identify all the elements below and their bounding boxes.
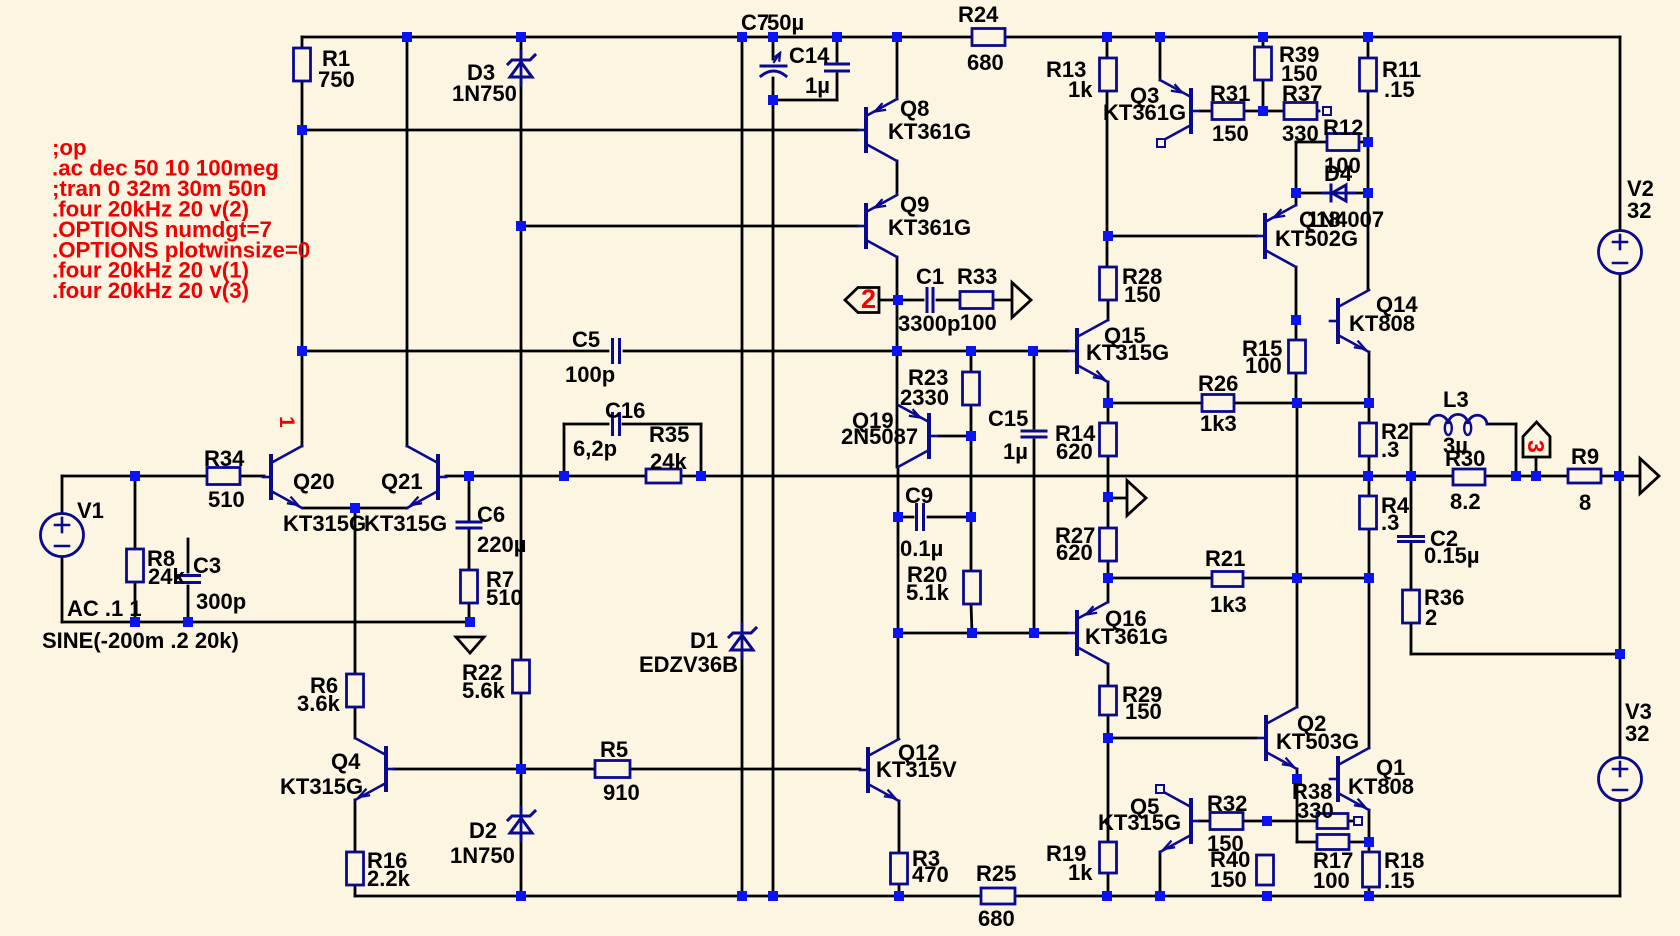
svg-text:C7: C7: [741, 10, 769, 35]
svg-text:KT361G: KT361G: [888, 215, 971, 240]
svg-text:330: 330: [1297, 798, 1334, 823]
svg-text:2N5087: 2N5087: [841, 424, 918, 449]
svg-text:R25: R25: [976, 861, 1016, 886]
svg-text:R5: R5: [600, 737, 628, 762]
svg-text:1µ: 1µ: [805, 73, 830, 98]
svg-text:1N750: 1N750: [450, 843, 515, 868]
svg-text:3: 3: [1523, 440, 1549, 453]
svg-text:0.15µ: 0.15µ: [1424, 543, 1480, 568]
svg-text:8: 8: [1579, 490, 1591, 515]
svg-text:5.1k: 5.1k: [906, 580, 950, 605]
svg-text:.four 20kHz 20 v(3): .four 20kHz 20 v(3): [52, 278, 249, 303]
svg-text:150: 150: [1124, 282, 1161, 307]
svg-text:910: 910: [603, 780, 640, 805]
svg-text:D4: D4: [1324, 161, 1353, 186]
svg-text:KT361G: KT361G: [888, 119, 971, 144]
svg-text:R21: R21: [1205, 546, 1245, 571]
svg-text:3300p: 3300p: [898, 311, 960, 336]
svg-text:KT502G: KT502G: [1275, 226, 1358, 251]
svg-text:100: 100: [1313, 868, 1350, 893]
svg-text:300p: 300p: [196, 589, 246, 614]
svg-text:C5: C5: [572, 327, 600, 352]
svg-text:KT808: KT808: [1348, 774, 1414, 799]
svg-text:KT315G: KT315G: [1098, 810, 1181, 835]
svg-text:1: 1: [275, 416, 298, 428]
svg-text:24k: 24k: [650, 449, 687, 474]
svg-text:V1: V1: [77, 498, 104, 523]
svg-text:R30: R30: [1445, 446, 1485, 471]
svg-text:KT808: KT808: [1349, 311, 1415, 336]
svg-text:C16: C16: [605, 398, 645, 423]
svg-text:Q20: Q20: [293, 469, 335, 494]
svg-text:KT361G: KT361G: [1085, 624, 1168, 649]
svg-text:Q9: Q9: [900, 192, 929, 217]
svg-text:R9: R9: [1571, 444, 1599, 469]
svg-text:1k: 1k: [1068, 860, 1093, 885]
svg-text:SINE(-200m .2 20k): SINE(-200m .2 20k): [42, 628, 239, 653]
svg-text:C15: C15: [988, 406, 1028, 431]
svg-text:C9: C9: [905, 483, 933, 508]
svg-text:150: 150: [1210, 867, 1247, 892]
svg-text:620: 620: [1056, 540, 1093, 565]
svg-text:KT361G: KT361G: [1103, 100, 1186, 125]
svg-text:5.6k: 5.6k: [462, 678, 506, 703]
svg-text:C6: C6: [477, 502, 505, 527]
svg-text:D2: D2: [469, 818, 497, 843]
svg-text:R35: R35: [649, 422, 689, 447]
svg-text:750: 750: [318, 67, 355, 92]
svg-text:R12: R12: [1323, 115, 1363, 140]
svg-text:3.6k: 3.6k: [297, 691, 341, 716]
svg-text:1N750: 1N750: [452, 81, 517, 106]
svg-text:L3: L3: [1443, 387, 1469, 412]
svg-text:C3: C3: [193, 553, 221, 578]
svg-text:.3: .3: [1381, 510, 1399, 535]
svg-text:330: 330: [1282, 121, 1319, 146]
svg-text:1µ: 1µ: [1003, 439, 1028, 464]
svg-text:C14: C14: [789, 43, 830, 68]
svg-text:KT315G: KT315G: [280, 774, 363, 799]
svg-text:R34: R34: [204, 446, 245, 471]
svg-text:680: 680: [967, 50, 1004, 75]
svg-text:1k: 1k: [1068, 77, 1093, 102]
svg-text:R31: R31: [1210, 81, 1250, 106]
svg-text:50µ: 50µ: [767, 10, 804, 35]
svg-text:R26: R26: [1198, 371, 1238, 396]
svg-text:Q8: Q8: [900, 96, 929, 121]
svg-text:1k3: 1k3: [1200, 411, 1237, 436]
svg-text:8.2: 8.2: [1450, 489, 1481, 514]
svg-text:.15: .15: [1384, 77, 1415, 102]
svg-text:2.2k: 2.2k: [367, 866, 411, 891]
svg-text:220µ: 220µ: [477, 532, 526, 557]
svg-text:32: 32: [1625, 721, 1649, 746]
svg-text:AC .1 1: AC .1 1: [67, 596, 142, 621]
svg-text:Q4: Q4: [331, 749, 361, 774]
svg-text:100: 100: [1245, 353, 1282, 378]
svg-text:2: 2: [861, 284, 876, 314]
svg-text:680: 680: [978, 906, 1015, 931]
svg-text:R24: R24: [958, 2, 999, 27]
svg-text:Q21: Q21: [381, 469, 423, 494]
svg-text:R33: R33: [957, 264, 997, 289]
svg-text:470: 470: [912, 862, 949, 887]
svg-text:620: 620: [1056, 439, 1093, 464]
svg-text:150: 150: [1125, 699, 1162, 724]
svg-text:.15: .15: [1384, 868, 1415, 893]
svg-text:150: 150: [1212, 121, 1249, 146]
svg-text:510: 510: [208, 487, 245, 512]
svg-text:100p: 100p: [565, 362, 615, 387]
svg-text:0.1µ: 0.1µ: [900, 536, 943, 561]
svg-text:24k: 24k: [148, 564, 185, 589]
svg-text:6,2p: 6,2p: [573, 436, 617, 461]
svg-text:R37: R37: [1282, 81, 1322, 106]
svg-text:KT315G: KT315G: [283, 511, 366, 536]
svg-text:2330: 2330: [900, 385, 949, 410]
svg-text:510: 510: [486, 585, 523, 610]
svg-text:32: 32: [1627, 198, 1651, 223]
svg-text:100: 100: [960, 310, 997, 335]
svg-text:2: 2: [1425, 605, 1437, 630]
svg-text:1k3: 1k3: [1210, 592, 1247, 617]
svg-text:EDZV36B: EDZV36B: [639, 652, 738, 677]
svg-text:.3: .3: [1381, 437, 1399, 462]
svg-text:D1: D1: [690, 628, 718, 653]
svg-text:R32: R32: [1207, 791, 1247, 816]
svg-text:KT315V: KT315V: [876, 757, 957, 782]
svg-text:KT503G: KT503G: [1276, 729, 1359, 754]
svg-text:KT315G: KT315G: [1086, 340, 1169, 365]
svg-text:KT315G: KT315G: [364, 511, 447, 536]
svg-text:C1: C1: [916, 264, 944, 289]
